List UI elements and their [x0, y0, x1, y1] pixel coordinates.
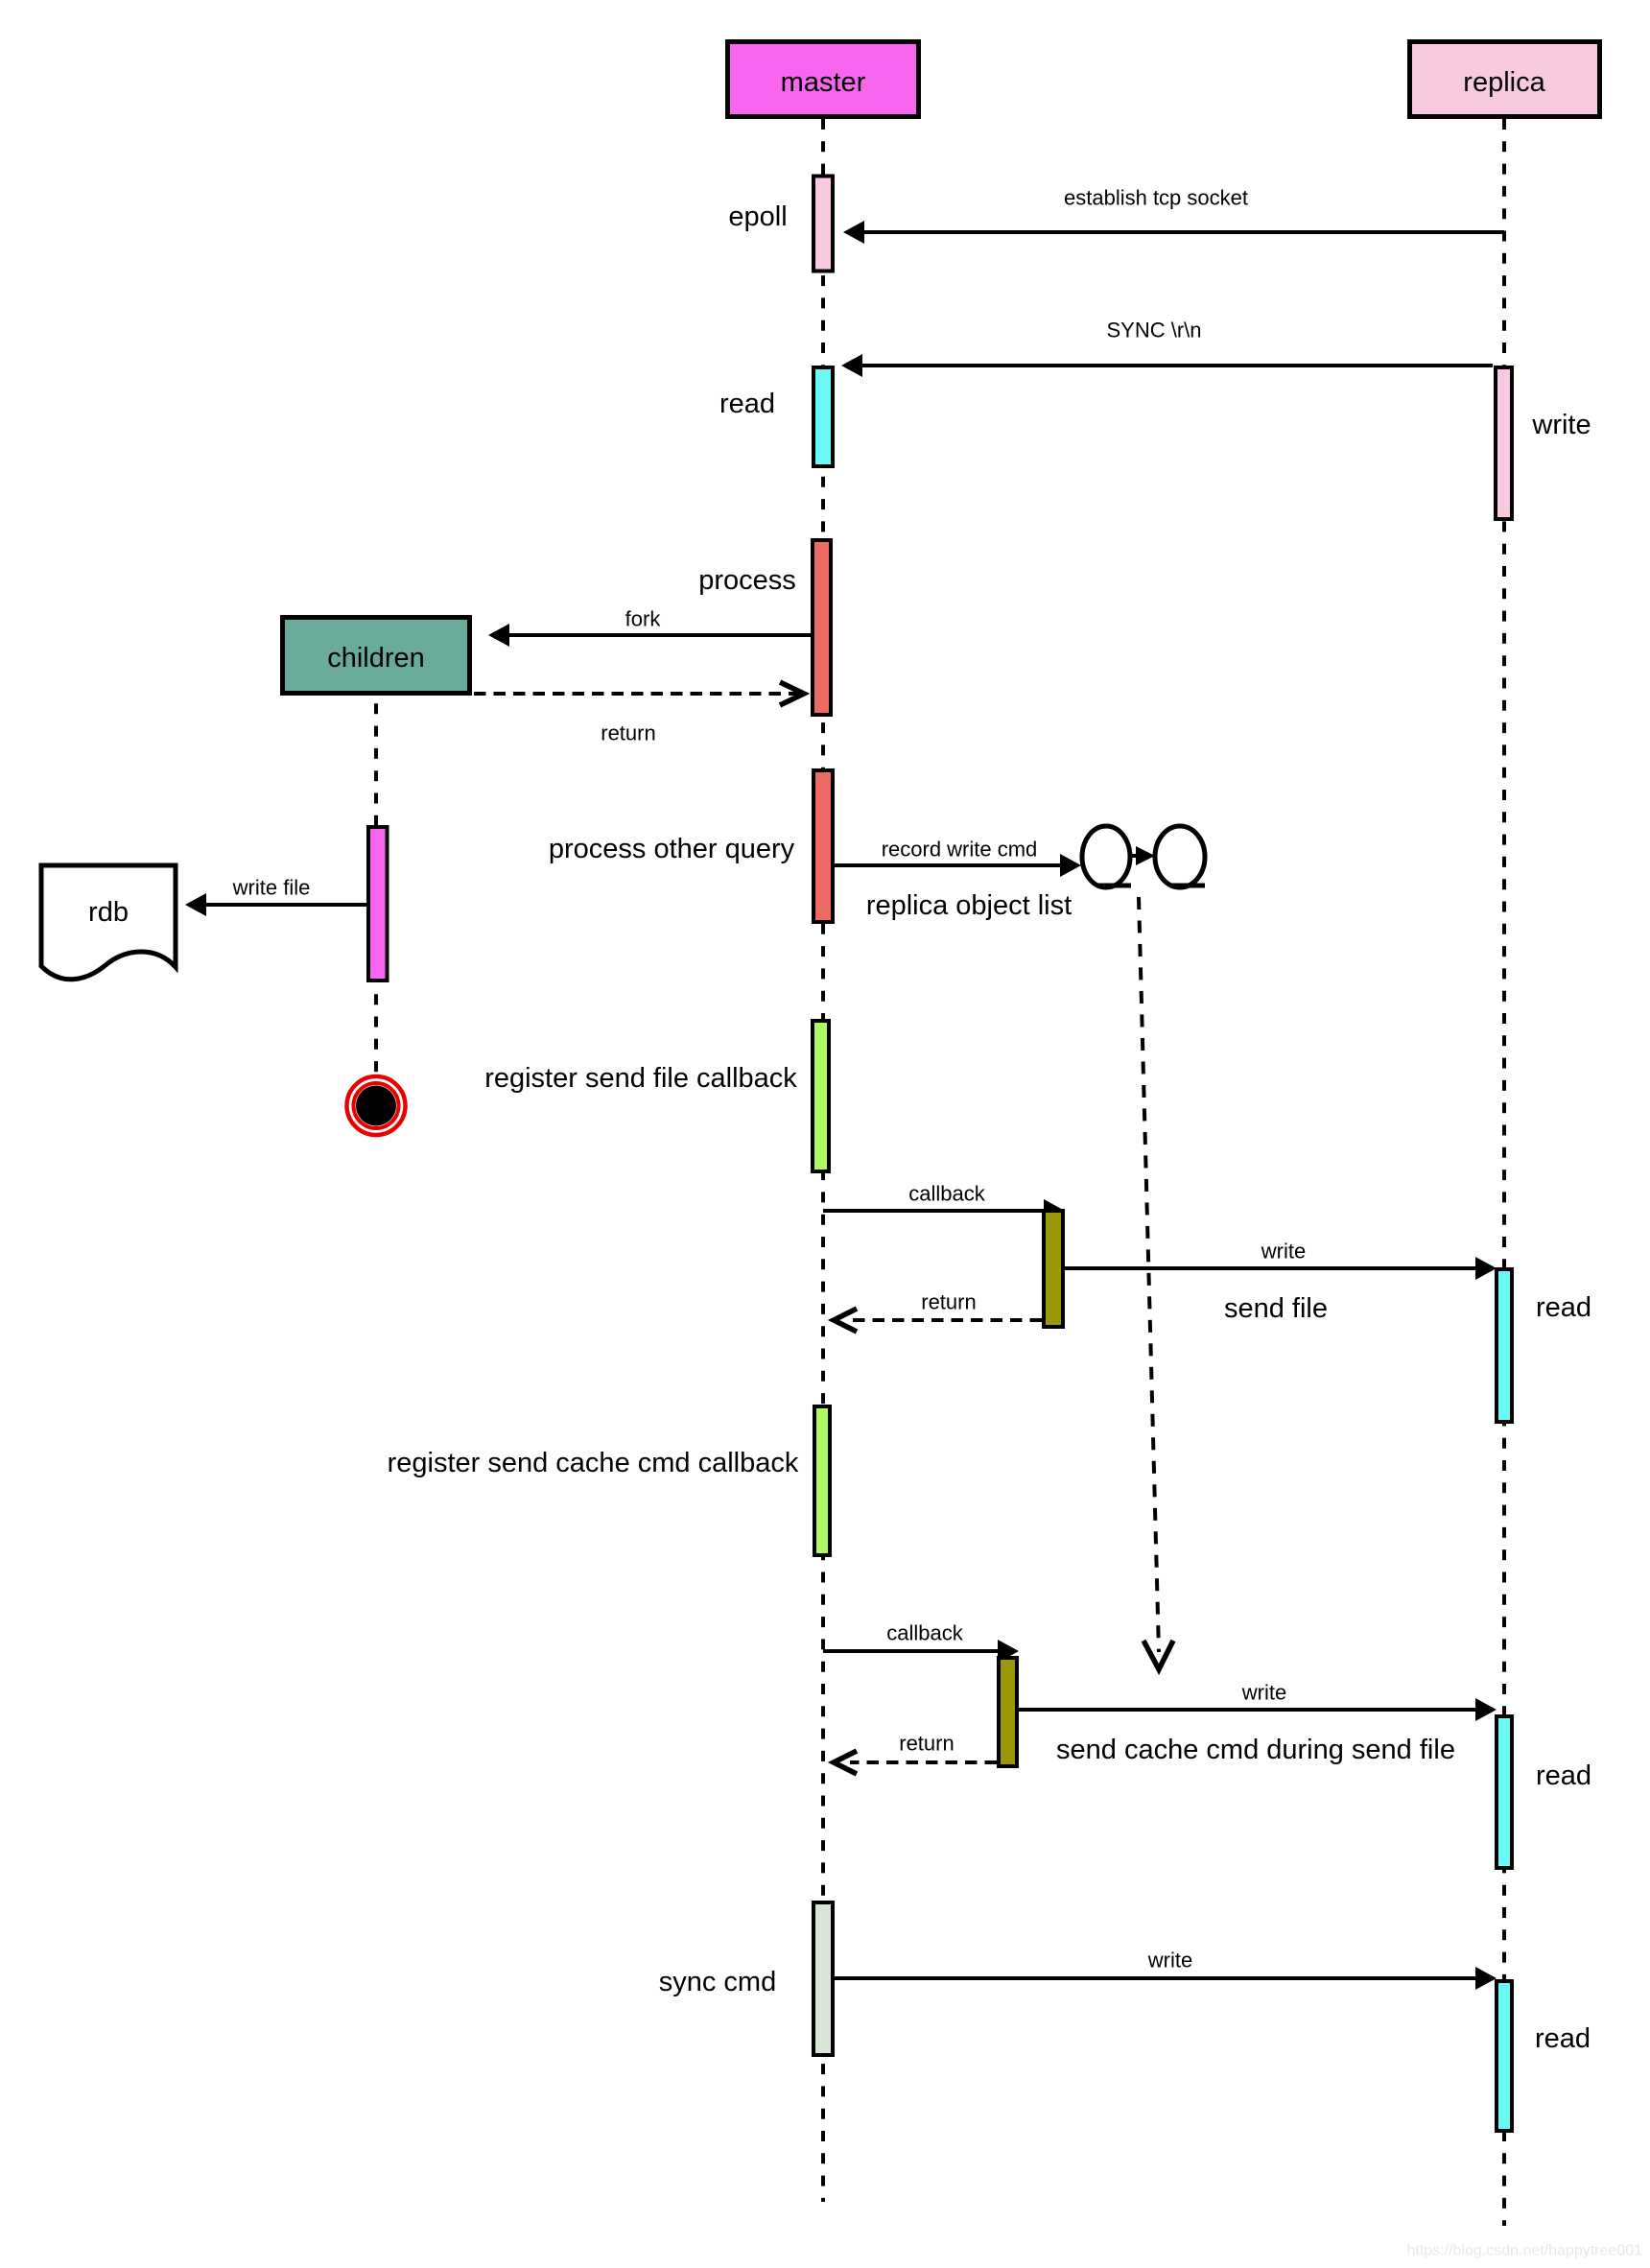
svg-text:rdb: rdb: [88, 897, 129, 928]
arrow record write cmd: [835, 863, 1064, 867]
arrow write send file: [1065, 1266, 1479, 1270]
svg-text:master: master: [781, 67, 866, 98]
activation bar register send cache cmd callback: [814, 1406, 830, 1555]
activation bar process other query: [813, 770, 833, 922]
object list down chevron: [1143, 1641, 1173, 1669]
replica object list node 1: [1082, 826, 1130, 887]
svg-text:process other query: process other query: [549, 834, 795, 864]
svg-text:return: return: [921, 1290, 976, 1314]
arrow fork: [506, 633, 811, 637]
arrow establish tcp socket: [860, 230, 1504, 234]
svg-text:fork: fork: [625, 607, 662, 631]
end of children lifeline circle: [347, 1076, 406, 1135]
svg-text:read: read: [1536, 1292, 1591, 1323]
svg-text:write file: write file: [232, 876, 311, 900]
replica lifeline: [1502, 119, 1506, 2226]
replica object list lifeline: [1139, 897, 1159, 1652]
children lifeline: [374, 681, 378, 1074]
activation bar callback1 (olive): [1044, 1211, 1063, 1327]
activation bar read3 (replica): [1497, 1981, 1512, 2131]
svg-text:read: read: [1535, 2023, 1591, 2054]
replica object list node 2: [1155, 826, 1205, 887]
svg-text:write: write: [1531, 410, 1591, 440]
svg-text:write: write: [1147, 1949, 1192, 1973]
svg-text:register send cache cmd callba: register send cache cmd callback: [388, 1448, 799, 1478]
svg-text:https://blog.csdn.net/happytre: https://blog.csdn.net/happytree001: [1406, 2243, 1642, 2259]
svg-text:read: read: [719, 389, 775, 419]
svg-text:sync cmd: sync cmd: [659, 1967, 776, 1997]
activation bar write (replica): [1496, 367, 1512, 519]
svg-text:read: read: [1536, 1760, 1591, 1791]
svg-text:replica: replica: [1463, 67, 1545, 98]
activation bar register send file callback: [813, 1021, 829, 1171]
activation bar read2 (replica): [1497, 1716, 1512, 1868]
arrow return 1: [850, 1318, 1042, 1322]
svg-text:return: return: [899, 1732, 954, 1756]
arrow callback 1: [823, 1209, 1048, 1213]
svg-text:replica object list: replica object list: [866, 890, 1072, 921]
svg-text:establish tcp socket: establish tcp socket: [1064, 186, 1248, 210]
activation bar children write rdb: [368, 827, 388, 980]
activation bar epoll: [813, 177, 833, 272]
arrow return (children to master): [474, 692, 802, 696]
activation bar process: [813, 540, 831, 715]
svg-text:children: children: [327, 643, 425, 673]
arrow write file: [202, 903, 366, 907]
node link arrow: [1131, 854, 1139, 858]
svg-text:callback: callback: [908, 1182, 985, 1206]
activation bar sync cmd: [813, 1902, 833, 2055]
svg-text:epoll: epoll: [728, 201, 787, 232]
svg-text:return: return: [601, 721, 655, 745]
svg-text:SYNC \r\n: SYNC \r\n: [1106, 319, 1201, 343]
arrow SYNC: [859, 364, 1493, 367]
svg-text:write: write: [1261, 1240, 1306, 1264]
master lifeline: [821, 119, 825, 2202]
svg-text:callback: callback: [886, 1621, 963, 1645]
actor box children: [283, 618, 470, 694]
arrow callback 2: [823, 1649, 1002, 1653]
rdb document: [41, 865, 176, 980]
activation bar read (master): [813, 367, 833, 466]
svg-text:register send file callback: register send file callback: [484, 1063, 797, 1094]
actor box replica: [1410, 42, 1600, 117]
svg-text:send file: send file: [1224, 1293, 1328, 1324]
activation bar read1 (replica): [1497, 1269, 1512, 1422]
actor box master: [728, 42, 919, 117]
activation bar callback2 (olive): [999, 1658, 1017, 1766]
arrow return 2: [850, 1760, 997, 1764]
svg-text:process: process: [698, 565, 796, 596]
svg-text:record write cmd: record write cmd: [882, 838, 1038, 862]
arrow write cache cmd: [1019, 1708, 1479, 1712]
arrow write sync cmd: [835, 1976, 1479, 1980]
svg-text:write: write: [1241, 1681, 1286, 1705]
svg-text:send cache cmd during send fil: send cache cmd during send file: [1056, 1735, 1455, 1765]
